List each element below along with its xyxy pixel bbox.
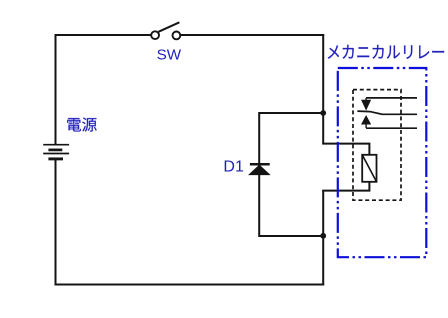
contact arrow up [362,116,371,124]
label 電源 (power source) [67,118,97,132]
wire bottom return [56,284,325,286]
junction node top [320,110,326,116]
relay boundary box (blue two-dot chain line) [338,68,427,257]
diode D1 cathode bar [250,163,270,166]
wire left vertical lower [55,159,57,286]
wire diode branch vertical [258,112,260,237]
contact line NO bottom [366,127,417,129]
wire to coil top [322,144,369,155]
contact common line middle [357,111,417,114]
contact arrow down [365,98,367,101]
wire from coil bottom [322,182,369,191]
switch SW [151,22,180,39]
wire right vertical lower [322,191,324,285]
junction node bottom [320,233,326,239]
battery cell plates [43,145,69,159]
wire diode branch bottom [259,235,323,237]
wire diode branch top [259,112,323,114]
relay contact block dashed box [353,90,401,201]
wire right vertical upper [322,34,324,144]
contact line NC top [366,97,417,99]
svg-text:SW: SW [157,46,182,63]
relay coil rectangle [362,155,376,182]
label メカニカルリレー (mechanical relay) [328,45,444,59]
diode D1 anode triangle [250,166,269,175]
wire left vertical upper [55,34,57,145]
wire top-left from battery to switch [56,34,152,36]
relay coil diagonal [362,155,376,182]
svg-text:D1: D1 [223,158,244,175]
wire top from switch to relay branch corner [180,34,324,36]
